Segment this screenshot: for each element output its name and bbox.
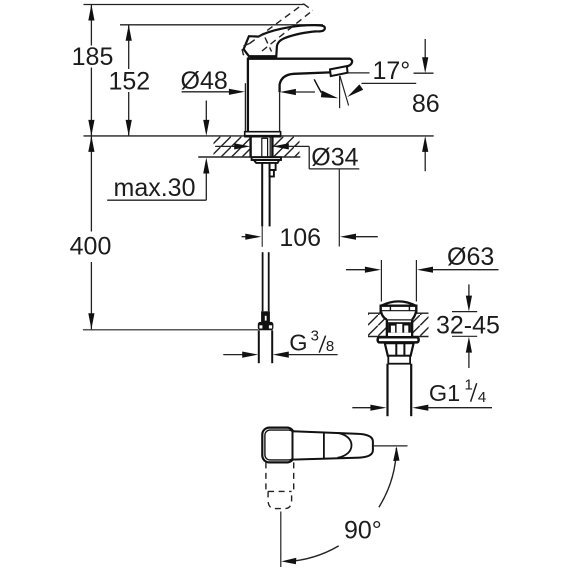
centerline below handle xyxy=(280,512,282,568)
faucet spout outline (thick) xyxy=(248,59,352,132)
drain countertop hatching left xyxy=(368,314,387,336)
handle raised position (dashed) xyxy=(242,4,313,58)
pipe end nipple xyxy=(261,311,270,322)
aerator (spout outlet) xyxy=(330,66,348,76)
svg-text:Ø63: Ø63 xyxy=(447,243,494,271)
faucet base flange xyxy=(245,132,281,136)
lever front curve xyxy=(338,433,352,458)
handle thick bottom edge xyxy=(248,56,277,59)
drain cap dome xyxy=(381,301,417,306)
wire: extension line at supply pipe end (400 bottom) xyxy=(83,329,258,331)
svg-text:3: 3 xyxy=(311,327,319,344)
svg-text:106: 106 xyxy=(279,224,321,252)
drain ring xyxy=(388,356,410,364)
countertop hatching right of shank xyxy=(273,137,300,157)
svg-text:4: 4 xyxy=(478,389,486,406)
wire: extension line from lever tip xyxy=(373,445,408,447)
dimension 32-45 xyxy=(452,311,477,313)
wire: extension line (152 level) xyxy=(120,24,323,26)
lever arm (top view) xyxy=(293,431,373,459)
drain body through countertop xyxy=(386,320,388,337)
drain sealing washer xyxy=(378,337,419,342)
mounting nut xyxy=(254,160,279,163)
lever segment line xyxy=(323,432,325,458)
svg-text:8: 8 xyxy=(326,338,334,355)
body cylinder silhouette (thin) xyxy=(244,83,246,132)
wire: Ø63 extension lines xyxy=(380,260,382,302)
svg-text:Ø48: Ø48 xyxy=(181,67,228,95)
wire: extension line from Ø34 label down to 106 dimension xyxy=(338,169,340,247)
dimension 152 xyxy=(128,25,130,136)
svg-text:86: 86 xyxy=(412,90,440,118)
threaded shank through countertop xyxy=(249,136,251,157)
water stream curved arrow xyxy=(314,79,321,92)
svg-text:400: 400 xyxy=(70,233,112,261)
dimension 400 xyxy=(90,136,92,329)
G3/8 tail pipe xyxy=(258,330,260,363)
handle base outer xyxy=(262,428,294,463)
pipe end olive nut xyxy=(258,322,274,330)
90 degree arc (broken around text) xyxy=(379,448,397,507)
dimension 106 xyxy=(242,236,247,238)
mounting washer under countertop xyxy=(252,157,281,160)
water stream angled line (17 deg) xyxy=(340,76,349,106)
dimension 185 xyxy=(90,5,92,136)
wire: top extension line (185 level) xyxy=(84,4,304,6)
svg-text:17°: 17° xyxy=(373,57,411,85)
svg-text:G1: G1 xyxy=(429,380,460,406)
vertical reference line at spout outlet xyxy=(339,76,341,108)
countertop bottom surface line xyxy=(198,156,300,158)
handle lever (side view, solid) xyxy=(244,25,325,56)
supply pipe upper segment xyxy=(261,163,263,227)
handle rotated position (dashed) xyxy=(266,462,294,508)
svg-text:152: 152 xyxy=(108,68,150,96)
faucet body and spout (fill) xyxy=(245,59,352,132)
svg-text:Ø34: Ø34 xyxy=(311,143,358,171)
drain tail pipe xyxy=(386,364,388,417)
svg-text:185: 185 xyxy=(72,43,114,71)
check valve steps xyxy=(270,163,276,170)
countertop at drain: bottom line xyxy=(368,336,387,338)
svg-text:90°: 90° xyxy=(344,517,382,545)
drain neck xyxy=(381,311,416,319)
label G 3/8 xyxy=(223,354,243,356)
svg-text:G: G xyxy=(289,330,307,356)
supply pipe lower segment xyxy=(262,252,264,311)
countertop top surface line xyxy=(84,135,434,137)
svg-text:1: 1 xyxy=(465,377,473,394)
svg-text:32-45: 32-45 xyxy=(436,312,500,340)
handle base inner rim xyxy=(265,430,294,460)
wire: thin pipe extension through 106 dimension xyxy=(261,226,263,246)
dimension 86 xyxy=(424,39,426,59)
drain countertop hatching right xyxy=(412,314,428,336)
label diameter 34 xyxy=(215,145,235,147)
svg-text:max.30: max.30 xyxy=(114,174,196,202)
countertop hatching left of shank xyxy=(214,137,251,157)
countertop at drain: top line xyxy=(368,312,382,314)
drain cap rim xyxy=(381,306,417,312)
drain locknut xyxy=(385,343,414,356)
